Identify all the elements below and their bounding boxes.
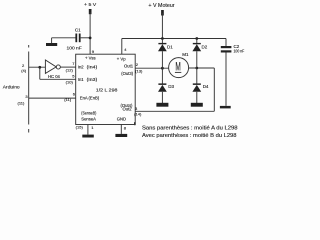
svg-text:1/2 L 298: 1/2 L 298 [96,87,118,93]
IC U1 1/2 L298 box [76,54,136,124]
diode D1 [161,39,163,45]
capacitor C1 [75,34,77,43]
svg-text:(Out3): (Out3) [121,71,133,76]
svg-text:(SenseB): (SenseB) [81,110,97,115]
junction Out2 node [195,67,198,70]
ground C2 [220,106,231,109]
Arduino bracket line [28,45,30,48]
svg-text:Out2: Out2 [123,106,133,111]
wire Out2 rail [135,110,214,112]
capacitor C1 ground [46,43,57,46]
ground D4 [191,103,203,107]
svg-text:(13): (13) [135,69,143,74]
svg-text:(EnB): (EnB) [89,95,100,100]
wire +5V vertical to pin 9 [89,12,91,54]
svg-text:GND: GND [117,117,126,122]
node +5V terminal mark [89,9,92,14]
svg-text:+ 5 V: + 5 V [84,2,97,7]
svg-text:D4: D4 [203,84,209,89]
junction In1 branch [38,66,41,69]
svg-text:M1: M1 [182,52,189,57]
svg-text:(11): (11) [18,101,26,106]
svg-text:(12): (12) [66,68,74,73]
diode D4 [196,68,198,84]
capacitor C2 [225,39,227,47]
note artifact mark [134,122,136,125]
ground SenseA [82,135,94,138]
junction Out1 node [161,67,164,70]
svg-text:In2: In2 [78,65,84,70]
svg-text:In1: In1 [78,77,84,82]
svg-text:(14): (14) [134,111,142,116]
svg-text:Out1: Out1 [124,63,134,68]
wire inverter out to In2 [60,66,75,68]
svg-text:Avec parenthèses : moitié B du: Avec parenthèses : moitié B du L298 [142,133,237,139]
svg-text:M: M [175,61,180,73]
svg-text:100 nF: 100 nF [67,45,83,50]
ground GND [115,134,127,137]
pin 1 SenseA wire [87,125,89,135]
svg-text:Arduino: Arduino [3,84,20,90]
wire motor right [189,67,215,69]
diode D2 [196,39,198,45]
wire pin3 to EnA [29,97,76,99]
svg-text:D1: D1 [167,44,173,49]
svg-text:100 nF: 100 nF [234,48,245,53]
wire C1 to +5V line [81,37,91,39]
wire Out1 to bridge [135,67,169,69]
wire +V Moteur vertical [161,13,163,39]
svg-text:HC 04: HC 04 [48,74,61,79]
wire pin2 to inverter [29,66,46,68]
svg-text:D3: D3 [168,84,174,89]
svg-text:Sans parenthèses : moitié A du: Sans parenthèses : moitié A du L298 [142,125,238,131]
svg-text:(15): (15) [76,124,84,129]
wire In1 branch vertical [39,67,41,79]
wire top rail +V [122,38,226,40]
pin 8 GND wire [120,125,122,134]
ground D3 [156,103,168,107]
wire Out2 riser [213,68,215,111]
svg-text:(10): (10) [66,80,74,85]
svg-text:(11): (11) [64,97,72,102]
svg-text:(In4): (In4) [87,65,98,70]
motor M1 [169,58,189,78]
svg-text:SenseA: SenseA [81,116,96,121]
svg-text:D2: D2 [202,44,208,49]
svg-text:EnA: EnA [80,95,88,100]
diode D3 [161,68,163,83]
inverter U2 HC04 [45,60,56,73]
junction +V/D1 [161,37,164,40]
node +V Moteur terminal mark [161,10,164,16]
junction rail/D2 [195,37,198,40]
svg-text:(4): (4) [21,68,27,73]
wire pin4 drop [121,39,123,55]
svg-text:+ Vss: + Vss [85,56,96,61]
wire In1 branch horizontal [40,78,76,80]
junction C1/+5V [89,37,92,40]
svg-text:C1: C1 [75,28,81,33]
wire C1 ground to C1 [52,37,76,39]
svg-text:(In3): (In3) [87,77,98,82]
svg-text:+ Vp: + Vp [117,57,126,62]
svg-text:+ V Moteur: + V Moteur [148,3,175,9]
